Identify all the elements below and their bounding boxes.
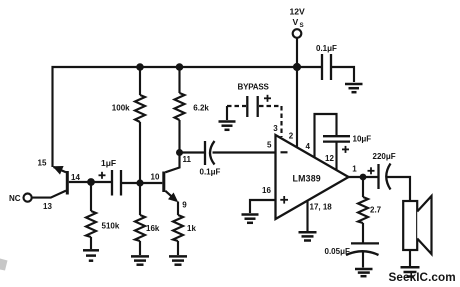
- pin 17,18 wire to ground: [306, 200, 308, 231]
- svg-text:12V: 12V: [290, 7, 306, 17]
- resistor 6.2k: [178, 67, 180, 93]
- wire op-amp output: [349, 176, 379, 178]
- svg-text:12: 12: [325, 154, 334, 163]
- ground bypass: [219, 122, 236, 130]
- svg-text:1: 1: [352, 165, 357, 174]
- wire coupling cap to pin 5: [213, 151, 276, 153]
- svg-text:BYPASS: BYPASS: [238, 82, 270, 91]
- op-amp U1 LM389: [276, 135, 349, 219]
- node junction dot 6.2k top: [176, 63, 184, 71]
- wire dashed right to pin 3: [259, 105, 282, 107]
- svg-text:4: 4: [306, 142, 311, 151]
- resistor 2.7: [362, 177, 364, 197]
- resistor 1k: [177, 202, 179, 216]
- capacitor 0.05uF: [351, 242, 379, 244]
- svg-text:17, 18: 17, 18: [310, 203, 333, 212]
- svg-text:5: 5: [267, 141, 272, 150]
- capacitor 10uF: [323, 135, 350, 137]
- ground speaker: [401, 267, 420, 276]
- resistor 510k: [90, 182, 92, 211]
- capacitor 220uF: [368, 167, 375, 174]
- capacitor bypass: [246, 96, 248, 117]
- svg-text:220μF: 220μF: [373, 152, 396, 161]
- pin 12 wire from 10uF bottom: [335, 142, 337, 170]
- ground 16k: [131, 256, 149, 264]
- svg-text:0.1μF: 0.1μF: [200, 167, 221, 176]
- wire 0.1uF to ground: [331, 67, 354, 82]
- wire 220uF to speaker: [387, 177, 410, 201]
- transistor Q1: [66, 171, 69, 195]
- svg-text:0.05μF: 0.05μF: [325, 247, 350, 256]
- ground 1k: [169, 256, 187, 264]
- svg-text:SeekIC.com: SeekIC.com: [389, 271, 456, 284]
- transistor Q2: [162, 172, 165, 193]
- wire 1uF to Q2 base node: [121, 182, 140, 184]
- svg-text:13: 13: [43, 202, 52, 211]
- svg-text:LM389: LM389: [293, 174, 321, 184]
- svg-text:10μF: 10μF: [353, 135, 372, 144]
- smudge bottom-left: [0, 259, 8, 271]
- svg-text:2.7: 2.7: [370, 205, 382, 214]
- svg-text:9: 9: [182, 201, 187, 210]
- ground supply cap: [345, 84, 363, 92]
- svg-text:10: 10: [151, 172, 160, 181]
- svg-text:1μF: 1μF: [101, 158, 116, 168]
- svg-text:S: S: [300, 22, 304, 29]
- svg-text:510k: 510k: [102, 222, 120, 231]
- capacitor 1uF: [111, 170, 113, 196]
- svg-text:11: 11: [183, 155, 192, 164]
- svg-text:2: 2: [289, 131, 294, 140]
- svg-text:16: 16: [262, 186, 271, 195]
- svg-text:6.2k: 6.2k: [193, 104, 209, 113]
- wire 12V vertical down to op-amp pin 2: [296, 38, 298, 147]
- svg-text:1k: 1k: [187, 224, 196, 233]
- node Q1 base junction: [87, 178, 95, 186]
- pin 16 wire to ground: [250, 200, 276, 213]
- node 11 junction: [176, 149, 183, 156]
- node junction dot supply rail: [293, 63, 301, 71]
- svg-text:0.1μF: 0.1μF: [316, 44, 337, 53]
- resistor 16k: [139, 183, 141, 215]
- svg-text:15: 15: [38, 159, 47, 168]
- svg-text:14: 14: [71, 173, 80, 182]
- wire Q1 base to node: [69, 181, 111, 183]
- node junction dot 100k top: [136, 63, 144, 71]
- node Q2 base junction: [136, 179, 143, 186]
- resistor 100k: [139, 67, 141, 95]
- wire bypass ground stub: [226, 106, 228, 120]
- svg-text:NC: NC: [9, 194, 21, 203]
- ground 510k: [83, 250, 99, 260]
- svg-text:16k: 16k: [146, 224, 160, 233]
- svg-text:V: V: [293, 17, 299, 27]
- wire node 11 to coupling cap: [180, 151, 205, 153]
- ground op-amp: [299, 232, 317, 240]
- capacitor 0.1uF coupling: [204, 141, 206, 165]
- terminal 12V Vs: [293, 29, 302, 38]
- terminal NC: [24, 194, 32, 202]
- wire dashed left: [227, 105, 246, 107]
- wire Q2 base: [140, 182, 162, 184]
- ground 0.05uF: [355, 269, 373, 276]
- wire speaker to ground: [409, 250, 411, 266]
- svg-text:100k: 100k: [112, 104, 130, 113]
- node output junction: [360, 174, 367, 181]
- speaker LS1: [403, 201, 417, 250]
- pin 4 wire to 10uF top: [315, 114, 337, 158]
- svg-text:3: 3: [273, 124, 278, 133]
- ground pin 16: [242, 215, 259, 223]
- capacitor 0.1uF supply bypass: [321, 54, 323, 80]
- wire supply rail (top + left): [53, 67, 322, 167]
